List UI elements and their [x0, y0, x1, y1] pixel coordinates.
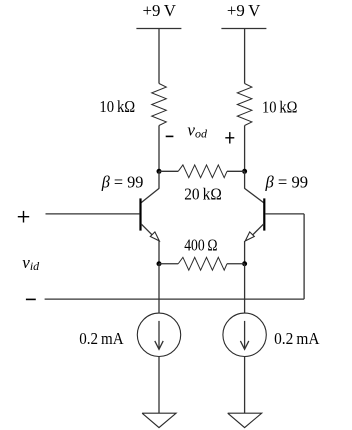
svg-text:β = 99: β = 99 [265, 172, 309, 191]
node C1 junction dot [157, 169, 162, 174]
svg-text:0.2 mA: 0.2 mA [274, 329, 320, 348]
current source I2 circle [223, 313, 266, 356]
node E2 junction dot [242, 261, 247, 266]
current source I1 arrow [158, 321, 160, 349]
transistor Q1 emitter arrowhead [150, 232, 159, 241]
resistor R3 20k [178, 165, 227, 178]
svg-text:400 Ω: 400 Ω [184, 236, 217, 255]
transistor Q2 emitter arrowhead [245, 232, 254, 241]
ground right [228, 413, 262, 427]
node E1 junction dot [157, 261, 162, 266]
current source I2 arrow [244, 321, 246, 349]
svg-text:vod: vod [187, 120, 208, 140]
wire E2 to source I2 [244, 264, 246, 313]
label plus (vod) [225, 137, 234, 139]
wire R1 bottom to collector node [158, 126, 160, 172]
transistor Q2 base bar [263, 198, 265, 230]
resistor R2 10k right [237, 84, 252, 126]
wire Q2 emitter to E2 node [244, 241, 246, 264]
wire I2 to ground [244, 357, 246, 414]
svg-text:0.2 mA: 0.2 mA [79, 329, 124, 348]
current source I1 circle [137, 313, 180, 356]
svg-text:+9 V: +9 V [227, 1, 261, 20]
power rail +9V left (bar) [136, 28, 181, 30]
svg-text:10 kΩ: 10 kΩ [262, 98, 297, 117]
wire rail to R2 top [244, 29, 246, 84]
wire I1 to ground [158, 357, 160, 414]
label minus (vod) [166, 135, 174, 137]
wire R4 to E2 [227, 263, 245, 265]
resistor R4 400 ohm [178, 257, 227, 270]
wire rail to R1 top [158, 29, 160, 84]
resistor R1 10k left [152, 84, 167, 126]
label minus input terminal [26, 298, 36, 300]
label plus input terminal [18, 216, 29, 218]
wire C1 to R3 [159, 170, 178, 172]
wire E1 to R4 [159, 263, 178, 265]
wire R2 bottom to collector node [244, 126, 246, 172]
svg-text:10 kΩ: 10 kΩ [99, 97, 135, 116]
power rail +9V right (bar) [221, 28, 266, 30]
ground left [142, 413, 176, 427]
node C2 junction dot [242, 169, 247, 174]
wire vid- bottom run [45, 298, 305, 300]
svg-text:+9 V: +9 V [142, 1, 176, 20]
svg-text:20 kΩ: 20 kΩ [184, 185, 222, 204]
transistor Q1 emitter line [141, 224, 152, 235]
transistor Q2 emitter line [253, 224, 264, 235]
transistor Q1 base bar [139, 198, 141, 230]
wire Q1 emitter to E1 node [158, 241, 160, 264]
svg-text:β = 99: β = 99 [101, 172, 144, 191]
svg-text:vid: vid [22, 253, 40, 273]
wire vid+ to Q1 base [46, 213, 140, 215]
wire E1 to source I1 [158, 264, 160, 313]
transistor Q2 collector wire [244, 171, 246, 188]
wire R3 to C2 [227, 170, 245, 172]
transistor Q1 collector wire [158, 171, 160, 188]
wire right riser to Q2 base [303, 214, 305, 299]
